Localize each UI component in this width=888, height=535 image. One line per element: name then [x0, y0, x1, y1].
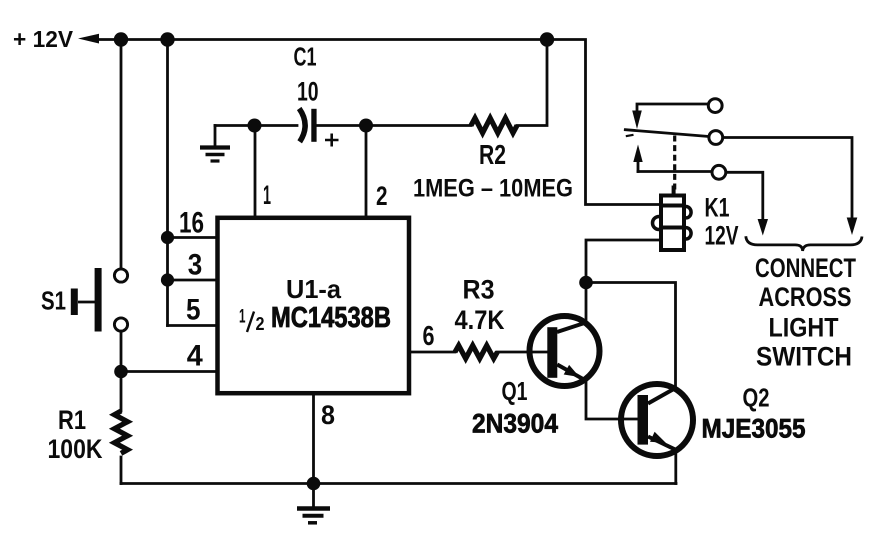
- svg-text:C1: C1: [294, 42, 317, 72]
- svg-text:2: 2: [376, 181, 388, 211]
- svg-text:+ 12V: + 12V: [13, 26, 74, 52]
- svg-text:Q2: Q2: [743, 383, 770, 413]
- svg-text:6: 6: [423, 320, 435, 351]
- svg-text:2: 2: [256, 314, 265, 334]
- svg-text:K1: K1: [705, 193, 730, 223]
- svg-text:R1: R1: [58, 405, 86, 435]
- svg-text:S1: S1: [41, 286, 66, 316]
- svg-text:Q1: Q1: [502, 376, 528, 406]
- svg-text:1: 1: [263, 180, 271, 210]
- svg-text:12V: 12V: [705, 221, 739, 251]
- svg-text:4: 4: [187, 340, 203, 373]
- svg-text:10: 10: [297, 77, 319, 107]
- svg-text:3: 3: [188, 249, 203, 282]
- svg-text:4.7K: 4.7K: [455, 305, 505, 335]
- svg-text:R3: R3: [463, 275, 495, 305]
- svg-text:8: 8: [321, 400, 335, 430]
- svg-text:100K: 100K: [48, 434, 103, 464]
- svg-text:16: 16: [179, 207, 204, 240]
- svg-text:U1-a: U1-a: [286, 274, 342, 304]
- svg-text:5: 5: [186, 294, 201, 327]
- svg-text:1: 1: [239, 307, 246, 328]
- svg-text:2N3904: 2N3904: [472, 409, 558, 439]
- svg-text:ACROSS: ACROSS: [759, 282, 852, 312]
- svg-text:CONNECT: CONNECT: [755, 253, 856, 283]
- svg-text:MC14538B: MC14538B: [271, 302, 391, 334]
- svg-text:LIGHT: LIGHT: [769, 313, 839, 343]
- svg-text:SWITCH: SWITCH: [756, 342, 852, 372]
- svg-text:1MEG – 10MEG: 1MEG – 10MEG: [413, 175, 573, 203]
- svg-text:R2: R2: [479, 139, 506, 170]
- svg-text:MJE3055: MJE3055: [702, 414, 806, 444]
